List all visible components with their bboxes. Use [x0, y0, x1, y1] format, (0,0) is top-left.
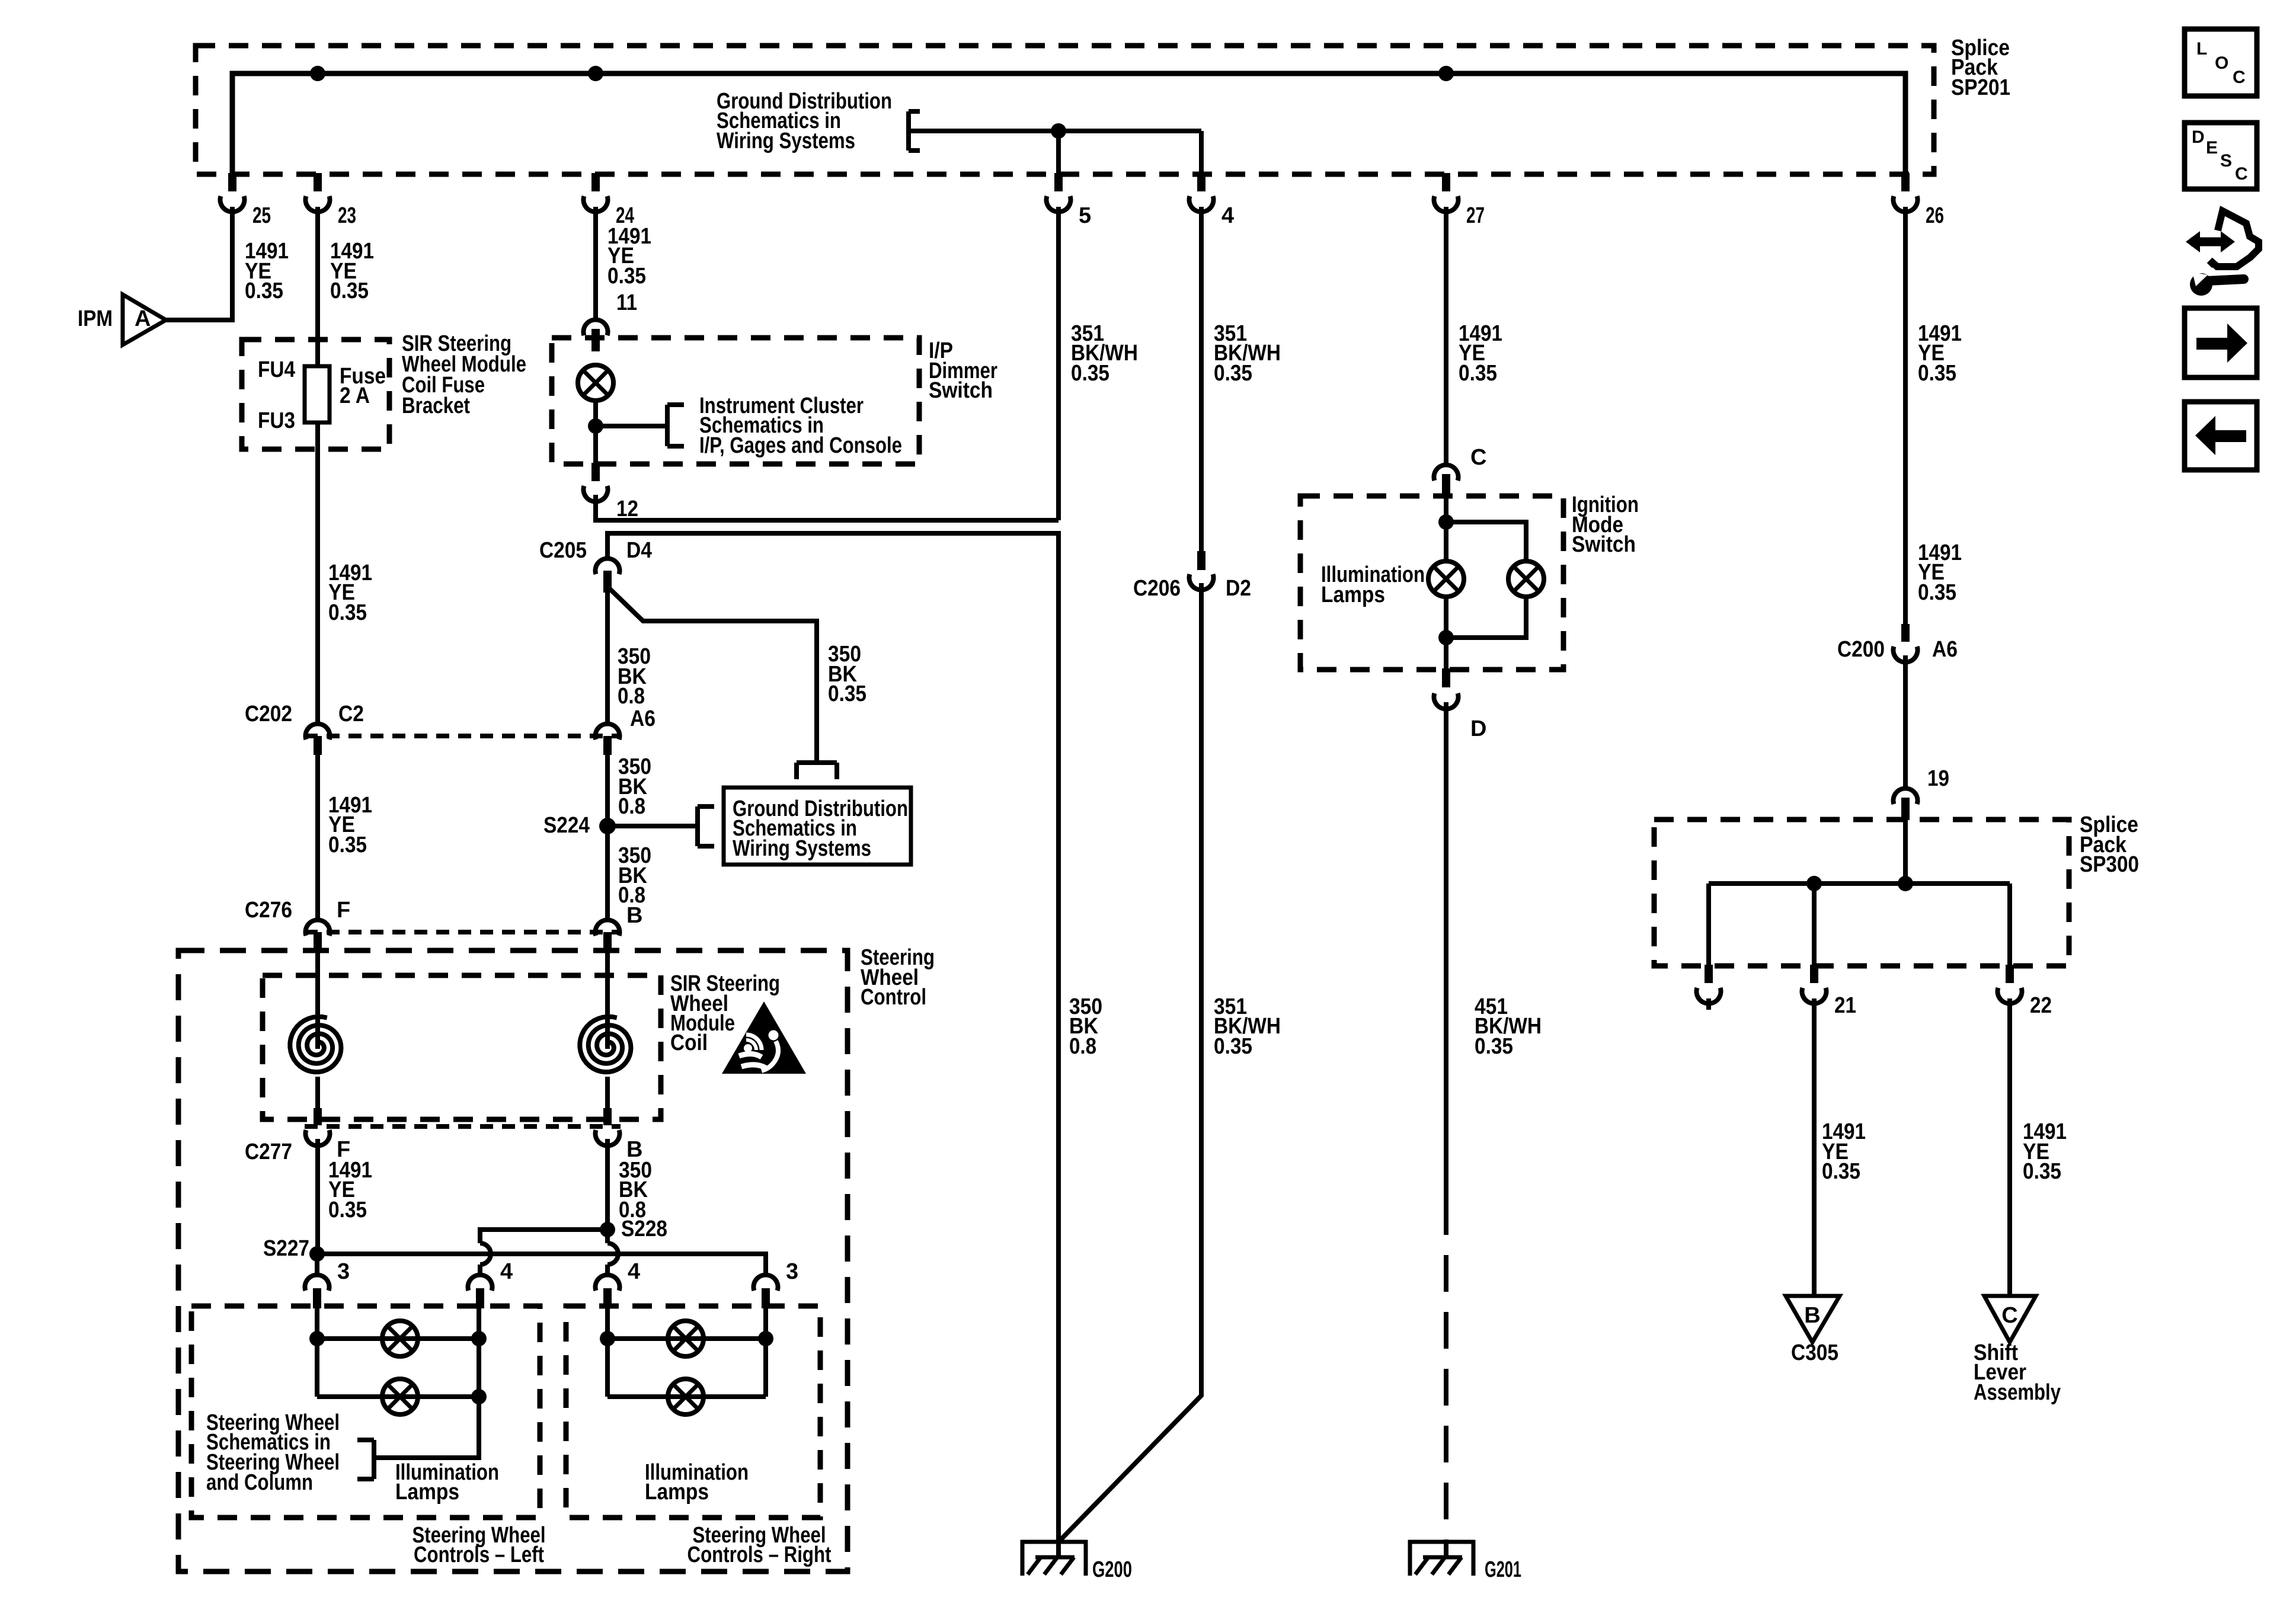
dimmer illumination lamp — [578, 365, 613, 401]
svg-text:0.35: 0.35 — [1822, 1159, 1860, 1184]
svg-text:0.35: 0.35 — [1214, 1034, 1252, 1059]
svg-text:C205: C205 — [539, 538, 587, 563]
wire 1491 YE C277 to S227 — [315, 1139, 320, 1254]
svg-text:4: 4 — [1221, 203, 1234, 228]
svg-text:25: 25 — [252, 203, 271, 228]
wire lamp2 down join — [1446, 597, 1526, 638]
IPM off-page triangle A — [123, 295, 166, 345]
connector terminal 11 into dimmer switch — [584, 319, 608, 335]
svg-text:A: A — [135, 306, 151, 331]
svg-text:4: 4 — [628, 1259, 640, 1284]
svg-text:G201: G201 — [1485, 1557, 1521, 1582]
svg-text:FU4: FU4 — [258, 357, 295, 382]
wire C200 to connector 19 — [1903, 655, 1908, 787]
svg-text:O: O — [2215, 53, 2228, 73]
back arrow — [2195, 416, 2246, 455]
reference bracket to ground distribution box — [797, 760, 837, 765]
svg-text:S224: S224 — [543, 813, 590, 838]
power bus wire from IPM feed across SP201 — [232, 73, 1905, 173]
connector terminal 4 steering wheel controls — [468, 1275, 492, 1291]
wire down to connector 4 — [1199, 131, 1204, 173]
connector stub at SP300 — [1705, 965, 1713, 983]
forward arrow icon box — [2185, 308, 2257, 377]
wire 451 BK/WH from D — [1444, 702, 1448, 1198]
svg-text:0.35: 0.35 — [328, 1198, 367, 1222]
svg-text:Wiring Systems: Wiring Systems — [717, 129, 855, 153]
wire S227 down — [315, 1254, 319, 1275]
wire 1491 YE from terminal 25 to IPM — [166, 207, 232, 320]
LOC icon box — [2185, 29, 2257, 96]
svg-text:C: C — [2233, 68, 2246, 87]
connector C277 pin F — [314, 1108, 322, 1125]
splice S224 — [599, 818, 616, 834]
connector C277 pin B — [603, 1108, 612, 1125]
svg-text:Lamps: Lamps — [1321, 582, 1385, 607]
svg-text:0.35: 0.35 — [245, 279, 283, 303]
illumination lamp R2 — [668, 1379, 703, 1414]
wire hop right over S227 — [607, 1243, 618, 1265]
svg-text:F: F — [337, 898, 350, 923]
connector C276 pin B — [595, 920, 619, 936]
wire S227 to right controls — [317, 1254, 766, 1275]
Steering Wheel Control dashed box — [178, 950, 848, 1571]
svg-text:2 A: 2 A — [340, 383, 370, 408]
wire branch to lamp 2 — [1446, 522, 1526, 561]
svg-text:0.35: 0.35 — [2023, 1159, 2061, 1184]
wire S228 down — [605, 1230, 610, 1243]
junction dot SP300 21 — [1806, 876, 1822, 891]
junction dot left top (right box) — [600, 1331, 615, 1346]
svg-text:4: 4 — [500, 1259, 513, 1284]
svg-text:D: D — [2192, 127, 2205, 147]
wire 350 BK A6 to S224 — [605, 755, 610, 826]
svg-text:Bracket: Bracket — [402, 393, 470, 418]
wire to instrument cluster bracket — [596, 424, 667, 428]
wire down to connector 5 — [1056, 131, 1061, 173]
svg-text:5: 5 — [1079, 203, 1091, 228]
junction dot at wire 5 — [1051, 123, 1066, 139]
connector terminal 4 at SP201 — [1197, 173, 1205, 191]
svg-text:0.35: 0.35 — [1918, 361, 1956, 386]
connector terminal 3 steering wheel controls — [305, 1275, 330, 1291]
reference bracket instrument cluster — [665, 405, 670, 446]
wire into right coil — [605, 951, 610, 1049]
svg-text:0.35: 0.35 — [1918, 580, 1956, 605]
svg-text:C305: C305 — [1791, 1340, 1838, 1365]
illumination lamp L1 — [382, 1321, 418, 1356]
wire lamp row 1 left — [317, 1336, 479, 1341]
forward arrow — [2196, 324, 2247, 363]
wire 1491 YE to shift lever — [2007, 998, 2012, 1296]
svg-text:0.35: 0.35 — [328, 600, 367, 625]
wire 1491 YE terminal 27 down — [1444, 207, 1448, 463]
wire into left coil — [315, 951, 320, 1049]
svg-text:11: 11 — [616, 290, 637, 315]
svg-text:B: B — [626, 903, 642, 928]
svg-text:0.35: 0.35 — [1475, 1034, 1513, 1059]
illumination lamp L2 — [382, 1379, 418, 1414]
wire dashed to G201 — [1444, 1198, 1448, 1557]
wire C205 D4 up and over to G200 drop — [607, 533, 1059, 1557]
ignition illumination lamp 2 — [1508, 561, 1544, 597]
svg-text:B: B — [1804, 1303, 1820, 1328]
svg-text:D4: D4 — [626, 538, 652, 563]
coil left (clockspring) — [290, 1017, 341, 1072]
svg-text:0.8: 0.8 — [618, 684, 645, 709]
junction dot bus at wire 24 — [588, 66, 603, 81]
ground G201 — [1408, 1540, 1475, 1544]
svg-text:Switch: Switch — [1572, 532, 1636, 557]
wire hop left over S227 — [480, 1243, 491, 1265]
connector terminal 22 — [2006, 965, 2014, 983]
fuse FU4/FU3 2A — [305, 366, 330, 422]
wire bracket to connectors 5 and 4 — [909, 129, 1201, 133]
svg-text:Coil: Coil — [670, 1030, 708, 1055]
connector C200 pin A6 — [1901, 624, 1910, 642]
connector terminal 21 — [1810, 965, 1818, 983]
splice S227 — [309, 1246, 325, 1262]
svg-text:Wiring Systems: Wiring Systems — [733, 836, 871, 861]
connector terminal 27 at SP201 — [1442, 173, 1450, 191]
svg-text:C200: C200 — [1837, 637, 1885, 662]
wire SP300 to 21 — [1812, 884, 1817, 965]
svg-text:C: C — [2235, 164, 2248, 184]
junction dot right bottom (left box) — [471, 1389, 487, 1404]
svg-text:Controls – Left: Controls – Left — [414, 1542, 544, 1567]
wire 351 BK/WH terminal 5 down — [1056, 207, 1061, 520]
svg-text:22: 22 — [2030, 993, 2052, 1018]
wire right vertical (left box) — [374, 1308, 479, 1458]
svg-text:Assembly: Assembly — [1974, 1380, 2061, 1405]
svg-text:G200: G200 — [1092, 1557, 1132, 1582]
wire 19 into SP300 — [1903, 820, 1908, 884]
svg-text:D: D — [1470, 716, 1486, 741]
svg-text:and Column: and Column — [206, 1470, 313, 1495]
svg-text:C206: C206 — [1133, 576, 1181, 601]
junction dot ignition top — [1438, 514, 1454, 530]
I/P dimmer switch dashed box — [552, 338, 919, 464]
svg-text:S227: S227 — [263, 1236, 309, 1261]
connector C276 pin F — [306, 920, 330, 936]
connector terminal 23 at SP201 — [314, 173, 322, 191]
svg-text:0.8: 0.8 — [618, 794, 645, 819]
wire terminal 12 to connector 5 wire — [596, 495, 1059, 520]
wire 1491 YE C202 to C276 — [315, 755, 320, 920]
connector terminal 4 steering wheel controls — [595, 1275, 619, 1291]
svg-text:IPM: IPM — [78, 306, 113, 331]
wire 1491 YE to C305 — [1812, 998, 1817, 1296]
svg-text:3: 3 — [337, 1259, 350, 1284]
splice pack SP300 dashed box — [1654, 820, 2069, 966]
junction dot right top (right box) — [758, 1331, 773, 1346]
svg-text:C277: C277 — [245, 1140, 292, 1164]
svg-text:A6: A6 — [1932, 637, 1958, 662]
junction dot bus at wire 23 — [310, 66, 325, 81]
junction dot SP300 main — [1898, 876, 1913, 891]
connector terminal 19 into SP300 — [1893, 788, 1917, 804]
wire C206 to G200 — [1060, 583, 1201, 1540]
splice S228 — [600, 1222, 615, 1237]
Steering Wheel Controls Left dashed box — [191, 1306, 540, 1518]
svg-text:SP201: SP201 — [1951, 75, 2010, 100]
wire left vertical (right box) — [605, 1308, 610, 1397]
svg-text:D2: D2 — [1226, 576, 1251, 601]
junction dot right top (left box) — [471, 1331, 487, 1346]
wire SP300 to 22 — [2007, 884, 2012, 965]
wire 1491 YE terminal 24 to connector 11 — [593, 207, 598, 318]
splice pack SP201 dashed box — [196, 46, 1934, 174]
wire 351 BK/WH terminal 4 down — [1199, 207, 1204, 551]
wire 350 BK S224 to C276 B — [605, 826, 610, 920]
wire left 4 to connector — [478, 1265, 482, 1275]
svg-text:0.35: 0.35 — [328, 833, 367, 857]
svg-text:Controls – Right: Controls – Right — [687, 1542, 832, 1567]
wire lamp row 2 left — [317, 1394, 479, 1399]
svg-text:I/P, Gages and Console: I/P, Gages and Console — [699, 433, 902, 458]
wire S228 branch left — [480, 1230, 607, 1243]
SP300 internal bus — [1709, 881, 2010, 886]
wire SP300 to stub — [1706, 884, 1711, 965]
illumination lamp R1 — [668, 1321, 703, 1356]
svg-text:0.8: 0.8 — [1069, 1034, 1096, 1059]
svg-text:FU3: FU3 — [258, 408, 295, 433]
stub wire — [1706, 998, 1711, 1010]
connector terminal 12 leaving dimmer switch — [591, 463, 600, 481]
junction dot dimmer — [588, 418, 603, 434]
wire lamp to terminal 12 — [593, 401, 598, 464]
connector terminal 5 at SP201 — [1054, 173, 1063, 191]
svg-text:3: 3 — [786, 1259, 798, 1284]
connector C206 pin D2 — [1197, 551, 1205, 570]
wire lamp row 1 right — [607, 1336, 766, 1341]
svg-text:E: E — [2206, 138, 2218, 158]
wire left vertical lamp feed — [315, 1308, 319, 1397]
junction dot left top — [309, 1331, 325, 1346]
wire 350 BK C277 to S228 — [605, 1139, 610, 1230]
reference bracket to Ground Distribution — [906, 111, 911, 151]
svg-text:C276: C276 — [245, 898, 292, 923]
wire S224 to bracket — [607, 824, 698, 828]
svg-text:C: C — [2001, 1303, 2017, 1328]
DESC icon box — [2185, 123, 2257, 189]
Ignition Mode Switch dashed box — [1300, 496, 1563, 670]
off-page triangle B — [1786, 1296, 1840, 1342]
Steering Wheel Controls Right dashed box — [566, 1306, 820, 1518]
wire lamp row 2 right — [607, 1394, 766, 1399]
SIR warning triangle icon — [722, 1001, 806, 1074]
wire 1491 YE from terminal 23 to fuse — [315, 207, 320, 367]
connector C ignition mode switch — [1434, 465, 1459, 481]
connector terminal 3 steering wheel controls — [754, 1275, 778, 1291]
svg-text:Lamps: Lamps — [395, 1480, 459, 1505]
wire D4 to A6 — [605, 593, 610, 724]
svg-text:0.35: 0.35 — [828, 681, 866, 706]
wire below left coil — [315, 1077, 320, 1109]
svg-text:S: S — [2220, 151, 2232, 171]
svg-text:19: 19 — [1927, 766, 1949, 791]
svg-text:C2: C2 — [338, 702, 364, 726]
svg-text:Switch: Switch — [929, 378, 993, 403]
connector C276 interface line — [305, 930, 621, 934]
svg-text:S228: S228 — [621, 1217, 667, 1241]
svg-text:12: 12 — [616, 497, 638, 521]
junction dot bus at wire 27 — [1438, 66, 1454, 81]
wire into ignition lamps — [1444, 497, 1448, 561]
connector C202 interface line — [305, 734, 621, 738]
ground G200 — [1021, 1540, 1088, 1544]
reference bracket steering wheel schematics — [372, 1440, 376, 1479]
connector C202 pin A6 — [596, 724, 620, 740]
svg-text:23: 23 — [338, 203, 356, 228]
junction dot ignition bottom — [1438, 630, 1454, 645]
back arrow icon box — [2185, 402, 2257, 470]
Ground Distribution Schematics box — [724, 788, 911, 865]
svg-text:26: 26 — [1926, 203, 1944, 228]
wire lamp1 down — [1444, 597, 1448, 668]
reference bracket S224 ground distribution — [695, 806, 700, 846]
SIR steering wheel module coil dashed box — [263, 975, 661, 1119]
coil right (clockspring) — [580, 1017, 631, 1072]
svg-text:0.35: 0.35 — [1071, 361, 1109, 386]
connector terminal 24 at SP201 — [591, 173, 600, 191]
svg-text:SP300: SP300 — [2080, 852, 2139, 877]
svg-text:C202: C202 — [245, 702, 292, 726]
svg-text:0.35: 0.35 — [607, 264, 646, 289]
svg-text:L: L — [2196, 39, 2207, 59]
wire right vertical (right box) — [763, 1308, 768, 1397]
svg-text:27: 27 — [1466, 203, 1485, 228]
service/diagnostic icon — [2191, 238, 2228, 247]
svg-text:21: 21 — [1834, 993, 1856, 1018]
wire right 4 to connector — [605, 1265, 610, 1275]
svg-text:Lamps: Lamps — [645, 1480, 709, 1505]
svg-text:A6: A6 — [630, 706, 655, 731]
connector C277 interface line — [305, 1124, 621, 1129]
connector D ignition mode switch — [1442, 668, 1450, 687]
connector C202 pin C2 — [306, 724, 330, 740]
wire 1491 YE fuse to C202 — [315, 422, 320, 724]
connector C205 pin D4 — [596, 558, 620, 574]
svg-text:C: C — [1470, 445, 1486, 470]
wire below right coil — [605, 1077, 610, 1109]
SIR fuse bracket dashed box — [242, 340, 389, 449]
wire branch 350 BK 0.35 to ground distribution — [607, 587, 817, 761]
connector terminal 26 at SP201 — [1901, 173, 1910, 191]
svg-text:0.35: 0.35 — [1459, 361, 1497, 386]
off-page triangle C — [1984, 1296, 2036, 1342]
connector terminal 25 at SP201 — [228, 173, 236, 191]
svg-text:Control: Control — [861, 985, 926, 1010]
wire 1491 YE terminal 26 down — [1903, 207, 1908, 624]
svg-text:0.35: 0.35 — [330, 279, 369, 303]
svg-text:0.35: 0.35 — [1214, 361, 1252, 386]
ignition illumination lamp 1 — [1428, 561, 1464, 597]
